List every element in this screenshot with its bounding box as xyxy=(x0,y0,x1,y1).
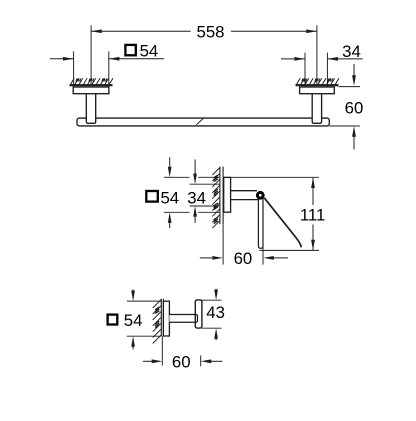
dimension 60 hook right tick xyxy=(200,356,202,367)
wall extension line below middle xyxy=(222,224,224,264)
square symbol hook 54 xyxy=(108,315,118,325)
break mark on rail xyxy=(196,118,203,124)
wall hatch left mount xyxy=(70,78,113,85)
extension line 34 right xyxy=(326,53,328,87)
dimension 60 middle right tick xyxy=(262,246,264,265)
dimension 54 middle bottom arrow xyxy=(169,222,171,229)
extension line 54 right plate edge xyxy=(108,51,110,86)
dimension 54 leader right xyxy=(109,58,164,60)
dimension 60 top upper arrow xyxy=(353,64,355,77)
dimension 34 middle top arrow xyxy=(194,159,196,175)
dimension 60 hook left arrow xyxy=(143,360,152,362)
dimension 54 middle top arrow xyxy=(169,157,171,168)
wall extension line for 60 top xyxy=(339,86,361,88)
dimension 558 line xyxy=(91,30,191,32)
right mount plate xyxy=(300,87,335,94)
extension line 54 bottom hook xyxy=(127,335,161,337)
svg-text:54: 54 xyxy=(160,189,179,208)
svg-text:34: 34 xyxy=(342,42,361,61)
dimension 111 lower arrowhead xyxy=(311,240,315,251)
wall hatch right mount xyxy=(296,78,339,85)
wall line right mount xyxy=(296,84,339,86)
hook mounting plate xyxy=(163,301,169,336)
square symbol top 54 xyxy=(125,45,135,55)
dimension 60 top lower arrow xyxy=(353,135,355,150)
wall extension line below hook xyxy=(161,336,163,365)
dimension 34 arrowhead left xyxy=(294,57,305,61)
right mount post xyxy=(312,93,321,123)
holder flap xyxy=(264,198,301,248)
extension line 34 left xyxy=(304,53,306,87)
square symbol middle 54 xyxy=(146,191,158,202)
extension line 54 left plate edge xyxy=(73,51,75,86)
hook post xyxy=(169,315,197,323)
holder roller pivot circle xyxy=(257,192,263,198)
wall double line middle xyxy=(219,167,221,225)
wall line left mount xyxy=(70,84,113,86)
dimension 558 left arrowhead xyxy=(91,29,102,33)
dimension 54 arrowhead right xyxy=(109,57,120,61)
svg-text:60: 60 xyxy=(172,352,191,371)
hook head xyxy=(195,300,202,328)
svg-text:54: 54 xyxy=(124,311,143,330)
dimension 34 leader right xyxy=(327,58,362,60)
dimension 34 tail left xyxy=(281,58,305,60)
dimension 111 line upper xyxy=(312,178,314,205)
dimension 60 middle right arrow xyxy=(273,257,288,259)
left mount plate xyxy=(73,87,109,94)
towel bar rail xyxy=(77,118,329,126)
dimension 60 hook right arrow xyxy=(211,360,223,362)
wall hatch hook xyxy=(153,300,162,344)
svg-text:111: 111 xyxy=(300,206,326,225)
extension line 558 right (post center) xyxy=(316,25,318,85)
svg-text:34: 34 xyxy=(187,189,206,208)
dimension 111 upper arrowhead xyxy=(311,177,315,188)
svg-text:54: 54 xyxy=(140,42,159,61)
dimension 54 arrowhead left xyxy=(63,57,74,61)
dimension 34 arrowhead right xyxy=(327,57,338,61)
extension line 54 top middle xyxy=(164,176,190,178)
dimension 43 top arrow xyxy=(215,289,217,292)
extension line 43 bottom xyxy=(202,327,222,329)
dimension 54 hook bottom arrow xyxy=(132,346,134,350)
svg-text:558: 558 xyxy=(197,23,225,42)
wall hatch middle xyxy=(212,168,220,229)
svg-text:43: 43 xyxy=(206,303,225,322)
dimension 34 middle bottom arrow xyxy=(194,216,196,223)
holder bracket vertical xyxy=(258,198,263,248)
dimension 54 hook top arrow xyxy=(132,290,134,295)
svg-text:60: 60 xyxy=(345,98,364,117)
extension line 43 top xyxy=(202,299,222,301)
dimension 558 right arrowhead xyxy=(306,29,317,33)
bottom extension line 111 xyxy=(259,249,319,251)
extension line 34 bottom middle xyxy=(190,205,220,207)
extension line 34 top middle xyxy=(190,183,220,185)
dimension 43 bottom arrow xyxy=(215,338,217,341)
wall double line hook xyxy=(160,299,162,337)
svg-text:60: 60 xyxy=(234,249,253,268)
dimension 54 tail left xyxy=(50,58,74,60)
bar bottom extension line for 60 top xyxy=(329,125,360,127)
extension line 54 bottom middle xyxy=(164,211,190,213)
holder mounting plate xyxy=(224,177,231,212)
left mount post xyxy=(86,93,95,123)
extension line 558 left (post center) xyxy=(90,25,92,85)
holder arm xyxy=(231,190,257,192)
extension line 54 top hook xyxy=(127,300,161,302)
dimension 60 middle left arrow xyxy=(200,257,212,259)
top extension line 111 xyxy=(223,176,319,178)
dimension 111 line lower xyxy=(312,225,314,251)
